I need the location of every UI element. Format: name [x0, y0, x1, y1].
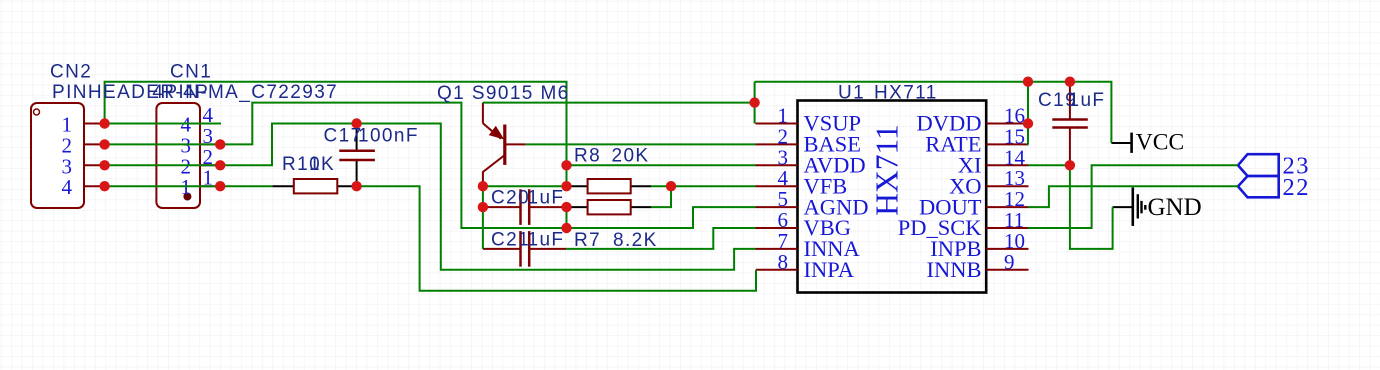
U1 right pin names: [898, 111, 983, 282]
junction AVDD row: [561, 160, 571, 170]
svg-text:100nF: 100nF: [358, 126, 419, 147]
svg-text:4PIN-MA_C722937: 4PIN-MA_C722937: [152, 82, 338, 103]
wire net VSUP riser at U1 pin1: [754, 82, 756, 124]
junction Q1 collector: [478, 181, 488, 191]
wire net PD_SCK to flag 23: [1028, 165, 1238, 228]
wire net VBG: C21 right to U1 pin6: [566, 228, 755, 249]
wire net INNA route via C17 top to U1 pin7: [220, 124, 755, 270]
wire net INPA: row4 CN2.4-CN1.1 to R10: [105, 185, 273, 187]
wire net DOUT to flag 22: [1028, 186, 1238, 207]
svg-text:9: 9: [1004, 250, 1015, 274]
GND ground symbol: [1113, 187, 1146, 226]
svg-text:8.2K: 8.2K: [613, 230, 658, 251]
junction C20 right / R7 left: [561, 202, 571, 212]
junction CN1 pin3: [215, 139, 225, 149]
U1 left pin stubs 1-8: [756, 124, 798, 270]
junction CN1 pin2: [215, 160, 225, 170]
svg-text:VCC: VCC: [1136, 130, 1184, 156]
svg-text:1uF: 1uF: [528, 230, 565, 251]
capacitor C17: [339, 124, 375, 187]
junction R8/R7 right: [666, 181, 676, 191]
wire C20 right to AGND row: [566, 207, 568, 228]
capacitor C19: [1052, 82, 1088, 166]
junction VCC rail / C19 top: [1065, 77, 1075, 87]
wire net XI to GND: [1028, 165, 1113, 249]
svg-text:1uF: 1uF: [528, 187, 565, 208]
U1 left pin names: [804, 111, 869, 282]
svg-text:1K: 1K: [309, 154, 335, 175]
svg-text:INNB: INNB: [927, 257, 982, 282]
wire net INNA: row3 CN2.3-CN1.2: [105, 164, 221, 166]
junction CN2 pin1: [99, 118, 109, 128]
wire net VSUP top rail to VCC: [755, 82, 1112, 143]
connector CN1: [156, 103, 200, 208]
capacitor C20: [483, 189, 567, 225]
resistor R8: [567, 179, 652, 193]
U1 right pin stubs 16-9: [986, 124, 1028, 270]
U1 left pin numbers: [778, 104, 789, 274]
junction C17 top: [351, 118, 361, 128]
svg-text:CN2: CN2: [50, 62, 92, 83]
svg-text:Q1 S9015 M6: Q1 S9015 M6: [437, 83, 570, 104]
wire net INPA: C17 bottom to U1 pin8: [358, 186, 757, 291]
VCC power symbol: [1111, 133, 1131, 153]
transistor Q1: [483, 103, 526, 187]
svg-text:22: 22: [1283, 174, 1311, 201]
junction C19 bottom / XI: [1065, 160, 1075, 170]
junction U1 pin16: [1023, 118, 1033, 128]
connector CN2: [31, 103, 84, 208]
junction C17 bottom / R10 right: [351, 181, 361, 191]
wire net VSUP: Q1 emitter run to U1 pin1 riser: [483, 102, 755, 104]
junction VSUP: [749, 97, 759, 107]
svg-text:1uF: 1uF: [1069, 90, 1106, 111]
resistor R10: [272, 179, 357, 193]
svg-text:U1: U1: [838, 83, 865, 104]
svg-text:C17: C17: [324, 126, 363, 147]
wire net AGND: row2 CN2.2-CN1.3: [105, 143, 221, 145]
net flag 22: [1238, 176, 1279, 197]
svg-text:C20: C20: [491, 187, 530, 208]
svg-text:20K: 20K: [612, 146, 650, 167]
svg-text:INPA: INPA: [804, 257, 855, 282]
wire Q1 collector to R8 left: [483, 185, 567, 187]
svg-text:HX711: HX711: [870, 124, 905, 216]
CN2 pin names 1-4: [62, 113, 73, 200]
junction R8 left: [561, 181, 571, 191]
svg-text:C21: C21: [491, 230, 530, 251]
svg-text:R7: R7: [574, 230, 601, 251]
junction VCC rail / DVDD: [1023, 77, 1033, 87]
junction CN2 pin3: [99, 160, 109, 170]
svg-text:R8: R8: [574, 146, 601, 167]
svg-text:8: 8: [778, 250, 789, 274]
U1 right pin numbers: [1004, 104, 1026, 274]
junction AGND row: [561, 223, 571, 233]
wire net VFB to U1 pin4: [671, 185, 756, 187]
junction CN1 pin1: [215, 181, 225, 191]
svg-text:4: 4: [62, 175, 73, 199]
wire net AGND riser and run to U1 pin5: [220, 103, 755, 228]
wire net VFB: R7 right riser: [651, 186, 671, 207]
IC U1 HX711 box: [798, 101, 987, 293]
wire VSUP branch to pins16,15: [1027, 82, 1030, 145]
wire row1 CN2.1 to CN1.4: [105, 123, 221, 125]
CN2 pin stubs: [84, 124, 105, 187]
net flag 23: [1238, 154, 1279, 176]
junction CN2 pin2: [99, 139, 109, 149]
capacitor C21: [483, 231, 566, 267]
wire Q1 collector down to C20/C21 left: [482, 186, 484, 249]
resistor R7: [567, 200, 652, 214]
svg-text:HX711: HX711: [874, 83, 938, 104]
junction CN2 pin4: [99, 181, 109, 191]
junction C20 left: [478, 202, 488, 212]
svg-text:CN1: CN1: [170, 62, 212, 83]
CN1 pin names 4-1 inside: [181, 113, 192, 200]
wire AVDD row to U1 pin3: [567, 164, 756, 166]
wire net BASE Q1 to U1 pin2: [526, 143, 756, 145]
CN1 pin stubs: [200, 124, 220, 187]
svg-text:GND: GND: [1148, 194, 1202, 221]
CN1 pin numbers 4-1 outside: [203, 103, 214, 190]
wire net VFB: R8 right: [651, 185, 671, 187]
wire net AVDD: CN2.1 up and top rail to x566: [105, 82, 567, 187]
